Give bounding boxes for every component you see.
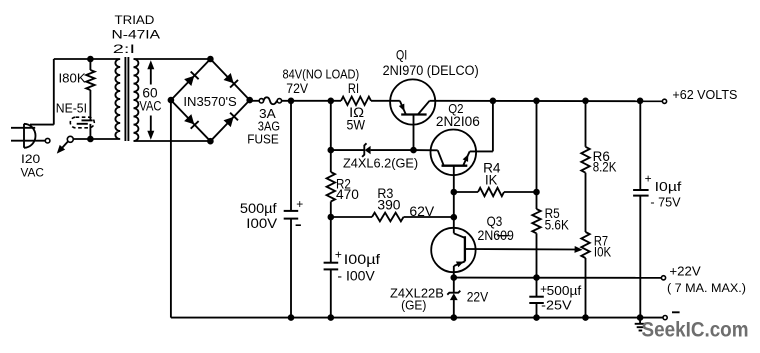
svg-text:- I00V: - I00V — [337, 269, 374, 284]
svg-text:8.2K: 8.2K — [593, 159, 617, 174]
svg-text:RI: RI — [348, 81, 359, 96]
svg-text:62V: 62V — [409, 204, 434, 220]
svg-text:(GE): (GE) — [401, 297, 426, 312]
svg-text:2NI970 (DELCO): 2NI970 (DELCO) — [383, 63, 479, 78]
svg-text:72V: 72V — [286, 81, 308, 96]
svg-text:QI: QI — [396, 48, 407, 63]
svg-text:2N2I06: 2N2I06 — [436, 114, 480, 129]
svg-text:390: 390 — [377, 198, 400, 213]
svg-text:+62 VOLTS: +62 VOLTS — [672, 88, 737, 102]
svg-text:( 7 MA. MAX.): ( 7 MA. MAX.) — [667, 281, 746, 295]
svg-text:VAC: VAC — [21, 166, 45, 180]
svg-text:3AG: 3AG — [258, 119, 280, 133]
svg-text:I0µf: I0µf — [655, 179, 682, 194]
svg-text:I00µf: I00µf — [344, 252, 381, 267]
svg-text:+: + — [645, 174, 652, 186]
svg-text:2N609: 2N609 — [478, 228, 515, 243]
svg-text:NE-5I: NE-5I — [56, 101, 87, 116]
svg-text:500µf: 500µf — [240, 201, 277, 216]
svg-text:I00V: I00V — [246, 216, 277, 231]
svg-text:- 75V: - 75V — [650, 195, 680, 210]
svg-text:+22V: +22V — [669, 263, 701, 278]
svg-text:5W: 5W — [347, 118, 366, 133]
svg-text:Z4XL6.2(GE): Z4XL6.2(GE) — [343, 156, 418, 171]
svg-text:I20: I20 — [21, 152, 40, 166]
svg-text:IN3570'S: IN3570'S — [183, 94, 237, 109]
svg-text:+: + — [335, 250, 342, 262]
svg-text:I0K: I0K — [594, 245, 611, 260]
svg-text:Q3: Q3 — [487, 214, 503, 229]
svg-text:SeekIC.com: SeekIC.com — [642, 319, 749, 342]
svg-text:N-47IA: N-47IA — [112, 27, 161, 41]
svg-text:2:I: 2:I — [113, 42, 135, 56]
svg-text:+: + — [296, 199, 303, 211]
svg-text:FUSE: FUSE — [247, 132, 278, 146]
svg-text:84V(NO LOAD): 84V(NO LOAD) — [283, 67, 360, 82]
svg-text:IK: IK — [485, 173, 497, 188]
svg-text:TRIAD: TRIAD — [115, 13, 155, 27]
svg-text:5.6K: 5.6K — [545, 218, 569, 233]
svg-text:500µf: 500µf — [547, 283, 582, 298]
svg-text:I80K: I80K — [59, 70, 86, 85]
svg-text:+: + — [540, 284, 547, 296]
svg-text:VAC: VAC — [139, 98, 161, 113]
svg-text:22V: 22V — [467, 290, 489, 305]
svg-text:470: 470 — [336, 187, 359, 202]
svg-text:-25V: -25V — [541, 298, 572, 313]
